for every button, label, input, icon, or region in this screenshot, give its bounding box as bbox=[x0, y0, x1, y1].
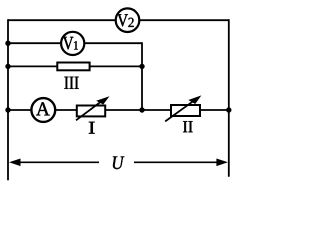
wire: middle vertical bbox=[141, 42, 143, 110]
node: left rail / V1 branch bbox=[5, 41, 10, 46]
wire: resistor III branch horizontal bbox=[8, 65, 142, 67]
node: left rail / bottom row bbox=[5, 107, 10, 112]
ammeter A bbox=[31, 98, 55, 122]
node: middle vertical / bottom row bbox=[139, 107, 144, 112]
voltmeter V2 bbox=[116, 8, 140, 32]
wire: bottom row horizontal bbox=[8, 109, 229, 111]
wire: right vertical rail bbox=[228, 19, 230, 177]
label U bbox=[113, 157, 125, 170]
node: right rail / bottom row bbox=[226, 107, 231, 112]
voltmeter V1 bbox=[61, 32, 84, 55]
node: left rail / III branch bbox=[5, 64, 10, 69]
rheostat I bbox=[76, 96, 110, 133]
node: middle vertical / III branch bbox=[139, 64, 144, 69]
wire: V1 branch horizontal bbox=[8, 42, 142, 44]
wire: top horizontal rail bbox=[8, 19, 229, 21]
resistor III bbox=[57, 63, 89, 89]
rheostat II bbox=[165, 95, 201, 132]
U dimension: left segment with arrowhead bbox=[9, 159, 99, 167]
U dimension: right segment with arrowhead bbox=[134, 159, 228, 167]
wire: left vertical rail bbox=[7, 19, 9, 180]
